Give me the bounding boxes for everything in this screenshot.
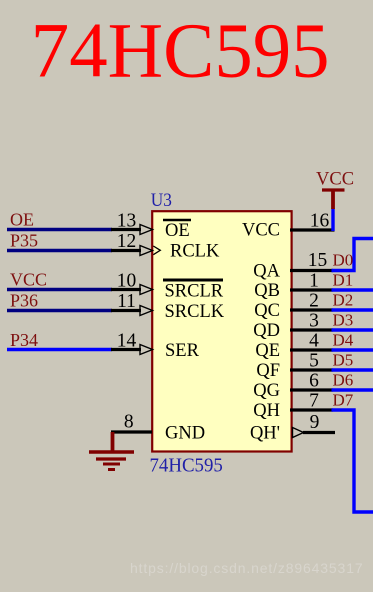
svg-text:GND: GND <box>165 424 205 444</box>
svg-text:VCC: VCC <box>10 270 47 290</box>
svg-text:8: 8 <box>124 412 134 433</box>
svg-text:2: 2 <box>309 291 319 312</box>
svg-text:https://blog.csdn.net/z8964353: https://blog.csdn.net/z896435317 <box>130 560 363 576</box>
svg-text:P34: P34 <box>10 330 38 350</box>
svg-text:14: 14 <box>117 331 137 352</box>
svg-text:P35: P35 <box>10 231 38 251</box>
svg-text:OE: OE <box>10 210 34 230</box>
svg-text:D5: D5 <box>333 351 354 370</box>
svg-text:13: 13 <box>117 211 137 232</box>
svg-text:QH': QH' <box>250 424 280 444</box>
svg-text:74HC595: 74HC595 <box>150 454 223 477</box>
svg-text:9: 9 <box>310 412 320 433</box>
svg-text:D0: D0 <box>333 251 354 270</box>
svg-text:OE: OE <box>165 221 190 241</box>
svg-text:QD: QD <box>253 321 280 341</box>
svg-text:7: 7 <box>309 391 319 412</box>
svg-text:4: 4 <box>309 331 319 352</box>
svg-text:D4: D4 <box>333 331 354 350</box>
svg-text:3: 3 <box>309 311 319 332</box>
svg-text:D7: D7 <box>333 391 354 410</box>
svg-text:D6: D6 <box>333 371 354 390</box>
svg-text:VCC: VCC <box>316 170 354 190</box>
svg-text:QA: QA <box>253 262 280 282</box>
svg-text:SRCLR: SRCLR <box>165 282 224 302</box>
svg-text:QE: QE <box>255 341 280 361</box>
svg-text:15: 15 <box>308 250 328 271</box>
svg-text:QB: QB <box>254 281 280 301</box>
svg-text:SRCLK: SRCLK <box>165 302 225 322</box>
svg-text:QC: QC <box>254 301 280 321</box>
svg-text:D2: D2 <box>333 291 354 310</box>
svg-text:6: 6 <box>309 371 319 392</box>
svg-text:QG: QG <box>253 381 280 401</box>
svg-text:VCC: VCC <box>242 221 280 241</box>
svg-text:5: 5 <box>309 351 319 372</box>
svg-text:D3: D3 <box>333 311 354 330</box>
svg-text:16: 16 <box>310 211 330 232</box>
svg-text:10: 10 <box>117 271 137 292</box>
svg-text:1: 1 <box>309 271 319 292</box>
svg-text:P36: P36 <box>10 291 38 311</box>
svg-text:QH: QH <box>253 401 280 421</box>
svg-text:U3: U3 <box>151 189 172 210</box>
svg-text:QF: QF <box>256 361 280 381</box>
svg-text:RCLK: RCLK <box>170 242 220 262</box>
svg-text:SER: SER <box>165 341 200 361</box>
svg-text:D1: D1 <box>333 271 354 290</box>
svg-text:12: 12 <box>117 231 137 252</box>
svg-text:11: 11 <box>117 291 136 312</box>
svg-text:74HC595: 74HC595 <box>31 7 330 94</box>
